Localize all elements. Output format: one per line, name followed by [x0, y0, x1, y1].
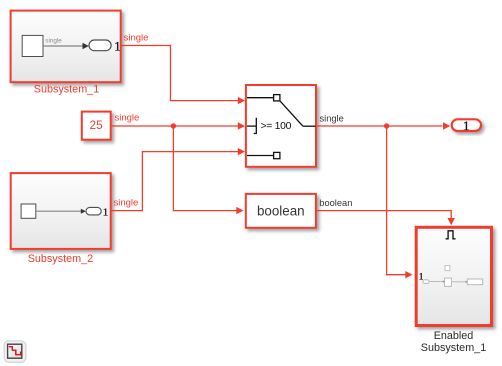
svg-text:single: single [45, 37, 62, 44]
svg-text:single: single [114, 197, 139, 208]
inner wire [36, 210, 81, 212]
svg-text:boolean: boolean [319, 198, 352, 208]
svg-text:1: 1 [463, 118, 470, 133]
legend button sample time [4, 341, 26, 362]
block Subsystem_1 [11, 11, 121, 96]
inner wire 2 [452, 281, 466, 283]
svg-text:Subsystem_1: Subsystem_1 [34, 84, 99, 96]
switch control input internal line [247, 125, 256, 127]
wire boolean to enable port [316, 198, 455, 225]
switch lever diagonal [280, 101, 303, 126]
inport icon square inside Subsystem_1 [22, 35, 43, 56]
inner arrowhead [83, 43, 89, 49]
inner wire [43, 45, 83, 47]
svg-text:single: single [124, 33, 149, 44]
data type conversion block boolean [246, 194, 316, 228]
wire Subsystem_1 to Switch input 1 [121, 33, 245, 105]
svg-text:boolean: boolean [257, 204, 305, 219]
red step line [9, 347, 22, 355]
inner inport oval [423, 280, 429, 284]
switch input 3 port square [274, 152, 280, 158]
switch block U1 [246, 85, 316, 167]
svg-text:>= 100: >= 100 [261, 121, 292, 132]
switch input 1 port square [274, 95, 280, 101]
constant block 25 [82, 112, 111, 140]
output port block 1 [452, 118, 481, 133]
block Subsystem_2 [11, 173, 111, 265]
outport oval inside Subsystem_1 [89, 40, 111, 51]
svg-text:Subsystem_2: Subsystem_2 [28, 253, 93, 265]
svg-text:Subsystem_1: Subsystem_1 [421, 342, 486, 354]
svg-text:Enabled: Enabled [434, 330, 474, 342]
svg-text:1: 1 [103, 207, 109, 219]
switch output internal line [303, 125, 316, 127]
inner block square [445, 278, 452, 286]
inner enable square [445, 266, 450, 271]
enable port symbol [446, 231, 456, 239]
svg-text:single: single [320, 114, 344, 124]
svg-text:1: 1 [114, 39, 120, 53]
switch input 3 internal line [247, 155, 274, 157]
junction [384, 123, 389, 128]
inner arrowhead [81, 209, 86, 214]
inner outport rect [467, 279, 482, 285]
inner wire [429, 281, 443, 283]
wire Switch to Out1 [316, 114, 451, 130]
inport icon square inside Subsystem_2 [21, 204, 36, 218]
outport oval inside Subsystem_2 [86, 207, 101, 215]
junction [171, 123, 176, 128]
svg-text:25: 25 [90, 118, 104, 132]
block Enabled Subsystem_1 [416, 227, 491, 353]
svg-text:single: single [115, 113, 140, 124]
wire Subsystem_2 to Switch input 3 [111, 148, 245, 211]
threshold tick [254, 118, 256, 134]
wire branch 25 to boolean block [173, 126, 243, 214]
wire 25 to Switch input 2 [112, 113, 246, 130]
wire branch Switch to Enabled Subsystem_1 input [387, 126, 413, 278]
switch input 1 internal line [247, 97, 274, 99]
